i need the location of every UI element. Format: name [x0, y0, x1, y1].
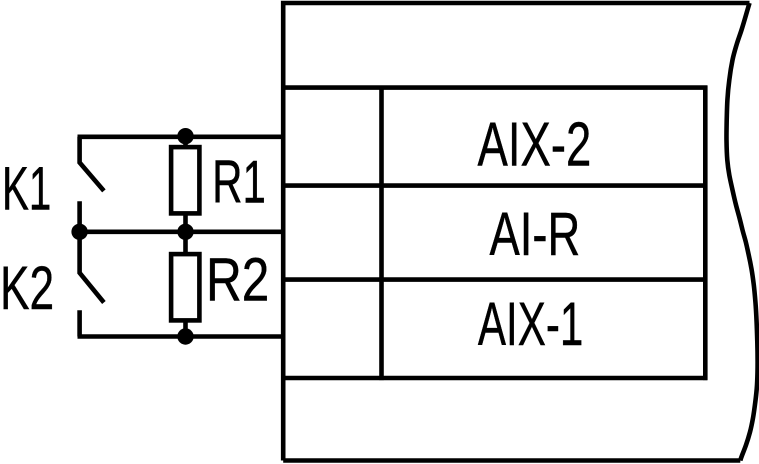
svg-text:R1: R1 — [212, 148, 266, 215]
svg-text:R2: R2 — [206, 246, 269, 314]
svg-text:AIX-2: AIX-2 — [478, 109, 592, 179]
svg-text:AIX-1: AIX-1 — [478, 292, 583, 359]
svg-text:K2: K2 — [0, 255, 54, 322]
svg-text:K1: K1 — [2, 154, 51, 222]
svg-text:AI-R: AI-R — [490, 200, 581, 268]
